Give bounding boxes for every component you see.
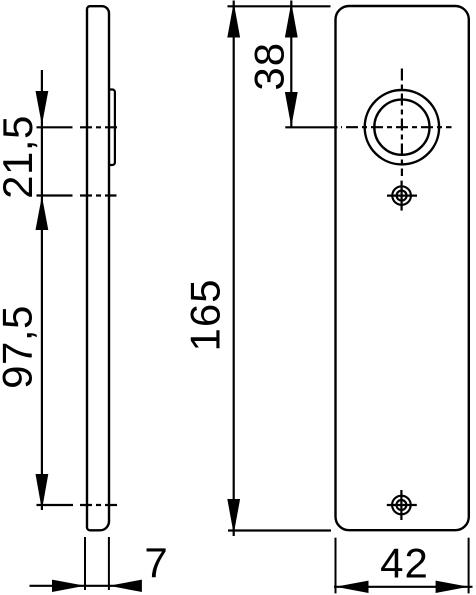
side-view collar protrusion xyxy=(108,90,115,166)
dimension 42 extension line right xyxy=(468,538,470,594)
arrowhead down at y=127 (38) xyxy=(285,92,298,127)
arrowhead down at bottom (165) xyxy=(227,499,240,534)
top screw hole cross vertical xyxy=(401,181,403,211)
front-view plate outline xyxy=(336,6,469,530)
arrowhead right at x=85 (7 left) xyxy=(52,580,85,592)
bottom screw hole inner circle xyxy=(396,500,406,510)
arrowhead up at y=195.5 (21,5 bottom / 97,5 top) xyxy=(36,196,49,230)
centerline y=127.3 dashed through slab xyxy=(80,126,121,128)
svg-text:7: 7 xyxy=(144,539,167,586)
handle hole horizontal centerline dashed xyxy=(341,126,452,128)
arrowhead down at y=505 (97,5 bottom) xyxy=(36,474,49,510)
left side-view slab outline xyxy=(87,6,109,530)
svg-text:21,5: 21,5 xyxy=(0,115,41,199)
bottom screw hole cross vertical xyxy=(400,490,402,520)
dimension line 21,5 / 97,5 vertical xyxy=(41,70,43,510)
dimension 42 line xyxy=(334,586,473,588)
svg-text:42: 42 xyxy=(380,540,429,587)
centerline y=195.5 top screw axis (left view) solid part xyxy=(37,194,73,196)
arrowhead down at y=127 (21,5 top) xyxy=(36,91,49,125)
centerline y=195.5 dashed through slab xyxy=(80,194,117,196)
dimension 7 extension line right xyxy=(108,537,110,590)
handle hole outer circle xyxy=(365,90,439,164)
svg-text:38: 38 xyxy=(245,42,292,91)
arrowhead left at x=108.9 (7 right) xyxy=(109,580,142,592)
top screw hole outer circle xyxy=(392,186,411,205)
top reference line (plate top extended) xyxy=(228,5,331,7)
bottom screw hole outer circle xyxy=(392,496,411,515)
centerline y=127.3 handle axis (left view) solid part xyxy=(37,126,73,128)
dimension line 165 vertical xyxy=(233,1,235,537)
arrowhead left at x=335.5 (42) xyxy=(336,581,369,593)
top screw hole inner circle xyxy=(397,191,407,201)
bottom screw hole cross horizontal xyxy=(387,504,417,506)
arrowhead up at top (38) xyxy=(285,3,298,38)
centerline y=505 dashed through slab xyxy=(80,504,119,506)
dimension 7 extension line left xyxy=(84,537,86,590)
handle hole inner circle xyxy=(374,100,429,155)
dimension 7 line xyxy=(30,585,138,587)
bottom reference line (plate bottom extended) xyxy=(228,529,331,531)
svg-text:165: 165 xyxy=(182,278,229,351)
handle axis reference line (circle center extended left) xyxy=(285,126,337,128)
centerline y=505 bottom screw axis (left view) solid part xyxy=(37,504,74,506)
arrowhead up at top (165) xyxy=(227,3,240,38)
dimension line 38 vertical xyxy=(290,1,292,128)
svg-text:97,5: 97,5 xyxy=(0,305,41,389)
arrowhead right at x=468.6 (42) xyxy=(436,581,469,593)
top screw hole cross horizontal xyxy=(387,195,417,197)
dimension 42 extension line left xyxy=(335,538,337,594)
handle hole vertical centerline dashed xyxy=(401,69,403,177)
